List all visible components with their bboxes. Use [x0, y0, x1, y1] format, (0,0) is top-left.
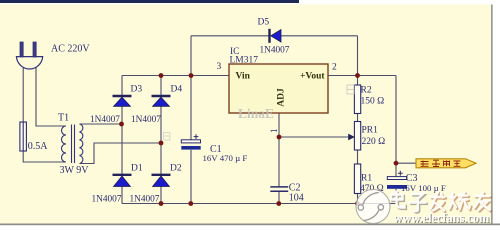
svg-text:PR1: PR1	[362, 125, 379, 135]
wire left column D3 anode to D1 cathode	[121, 106, 123, 174]
svg-text:ADJ: ADJ	[277, 88, 287, 107]
svg-text:D2: D2	[170, 163, 182, 173]
wire D4 cathode to +rail	[160, 76, 162, 96]
svg-text:104: 104	[289, 193, 304, 204]
svg-text:D5: D5	[258, 18, 270, 28]
node ADJ junction	[277, 135, 282, 140]
wire plug left lead	[22, 68, 24, 122]
wire ground rail	[122, 203, 396, 205]
watermark glyph fragment near R2	[347, 85, 354, 94]
watermark text 电子发烧友 (drawn strokes, shadow layer)	[392, 193, 427, 213]
wire D5 anode branch	[281, 36, 358, 76]
top navy title bar	[0, 0, 299, 3]
diode D3	[113, 96, 132, 106]
potentiometer PR1	[348, 122, 360, 151]
wire plug right lead to primary top	[36, 67, 66, 126]
elecfans logo disc	[356, 190, 390, 224]
svg-text:1N4007: 1N4007	[90, 115, 120, 125]
wire Vin rail	[122, 75, 229, 77]
resistor R2	[354, 85, 360, 114]
wire secondary top to bridge node A	[80, 123, 122, 125]
svg-text:3: 3	[217, 62, 222, 72]
diode D4	[152, 96, 171, 106]
transformer T1 secondary winding	[80, 124, 83, 163]
svg-text:LM317: LM317	[230, 55, 259, 65]
svg-text:Vin: Vin	[236, 72, 251, 82]
wire output column	[395, 76, 397, 177]
svg-text:150 Ω: 150 Ω	[361, 96, 385, 106]
wire C3 negative lead	[395, 189, 397, 204]
node output / C3	[394, 161, 399, 166]
wire D1 anode to ground rail	[121, 187, 123, 204]
resistor R1	[354, 164, 360, 194]
wire ADJ pin down to C2	[278, 113, 280, 187]
svg-text:D4: D4	[171, 84, 183, 94]
wire D2 anode to ground rail	[160, 187, 162, 204]
svg-text:R1: R1	[361, 174, 372, 184]
svg-text:AC 220V: AC 220V	[51, 44, 90, 55]
watermark text 电子发烧友 (white layer)	[391, 192, 490, 212]
wire D5 cathode branch	[191, 36, 269, 76]
svg-text:R2: R2	[361, 85, 372, 95]
svg-text:T1: T1	[58, 112, 69, 123]
wire R2 to PR1	[357, 114, 359, 123]
capacitor C3	[387, 171, 407, 189]
svg-text:3W 9V: 3W 9V	[60, 165, 90, 176]
wire ADJ node to PR1 wiper	[279, 136, 348, 138]
svg-text:www.elecfans.com: www.elecfans.com	[394, 211, 490, 225]
svg-text:+Vout: +Vout	[300, 72, 325, 82]
wire to output banner	[396, 162, 416, 164]
wire PR1 to R1	[357, 150, 359, 164]
svg-text:D1: D1	[131, 163, 143, 173]
diode D2	[152, 175, 171, 187]
watermark glyph fragment near node B	[164, 133, 171, 141]
svg-text:1N4007: 1N4007	[130, 195, 160, 205]
node D4 top on Vin rail	[159, 73, 164, 78]
node C1 ground	[188, 201, 193, 206]
transformer T1 primary winding	[62, 126, 67, 162]
wire C2 to ground rail	[278, 191, 280, 203]
wire fuse to transformer primary bottom	[23, 151, 66, 162]
wire +Vout rail	[328, 75, 396, 77]
svg-text:1N4007: 1N4007	[92, 195, 122, 205]
IC U1 LM317 body	[229, 64, 328, 113]
right frame line	[491, 5, 493, 225]
node bridge AC left	[119, 122, 124, 127]
svg-text:LinaE: LinaE	[238, 106, 274, 121]
svg-text:D3: D3	[131, 84, 143, 94]
svg-text:220 Ω: 220 Ω	[362, 137, 386, 147]
wire node2 to R2	[357, 76, 359, 86]
wire C1 negative lead	[190, 150, 192, 204]
diode D5	[270, 29, 282, 43]
svg-text:16V 470 µ F: 16V 470 µ F	[203, 153, 248, 163]
diode D1	[113, 175, 132, 187]
node R1 ground	[355, 201, 360, 206]
svg-text:2: 2	[332, 62, 337, 72]
wire right column D4 anode to D2 cathode	[160, 106, 162, 174]
svg-text:1N4007: 1N4007	[260, 45, 290, 55]
node D2 ground	[159, 201, 164, 206]
bottom frame line	[0, 224, 500, 226]
node bridge AC right	[159, 141, 164, 146]
wire D3 cathode to +rail	[121, 76, 123, 96]
svg-text:0.5A: 0.5A	[28, 141, 49, 152]
transformer T1 core	[72, 125, 75, 164]
AC plug P1	[16, 42, 42, 69]
wire secondary bottom to bridge node B	[80, 143, 162, 164]
node C2 ground	[276, 201, 281, 206]
capacitor C2	[270, 187, 288, 191]
wire C1 positive lead	[190, 76, 192, 141]
svg-text:1N4007: 1N4007	[131, 115, 161, 125]
node +Vout / D5 / R2	[355, 73, 360, 78]
svg-text:1: 1	[270, 128, 280, 133]
capacitor C1	[181, 134, 200, 149]
fuse F1	[20, 122, 27, 151]
wire R1 to ground rail	[357, 194, 359, 204]
output banner arrow	[416, 159, 476, 168]
node C1/D5 on Vin rail	[189, 73, 194, 78]
